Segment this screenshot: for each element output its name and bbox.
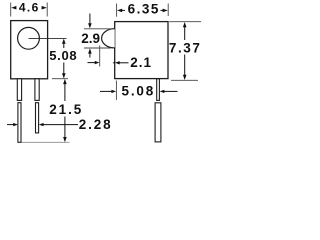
svg-text:2.28: 2.28 [79,117,113,132]
svg-text:4.6: 4.6 [19,1,40,15]
svg-text:2.9: 2.9 [81,31,100,46]
svg-text:6.35: 6.35 [128,2,160,17]
svg-text:5.08: 5.08 [122,83,155,98]
svg-text:5.08: 5.08 [49,48,77,63]
svg-text:7.37: 7.37 [169,40,201,55]
svg-text:21.5: 21.5 [49,102,83,117]
svg-text:2.1: 2.1 [130,55,152,70]
